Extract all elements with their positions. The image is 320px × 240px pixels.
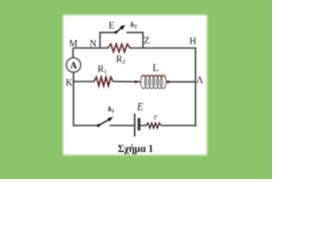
wire: bypass left vertical at N (100, 33, 116, 49)
current arrow before L (135, 80, 139, 83)
switch δ1 arrowhead (108, 117, 114, 122)
switch δ1 lever (99, 119, 110, 125)
battery E short plate (138, 118, 141, 131)
resistor r (146, 123, 161, 128)
resistor R1 (94, 77, 113, 86)
node K junction dot (73, 80, 75, 82)
switch δ2 pivot dot (115, 31, 118, 34)
svg-text:δ2: δ2 (130, 20, 137, 30)
svg-text:E: E (136, 102, 143, 113)
wire: bottom segment switch δ1 to battery (110, 125, 135, 127)
svg-text:A: A (70, 62, 77, 72)
wire: left vertical ammeter to bottom corner (73, 72, 75, 126)
battery E long plate (134, 114, 136, 137)
svg-text:K: K (66, 79, 73, 89)
wire: K row segment K to R1 (74, 81, 95, 83)
inductor L top arcs (141, 75, 165, 77)
wire: K row segment L to Λ (166, 81, 196, 83)
svg-text:N: N (90, 40, 97, 50)
svg-text:R2: R2 (116, 55, 125, 66)
svg-text:E: E (109, 22, 115, 32)
svg-text:Λ: Λ (196, 76, 203, 86)
wire: top segment R2 to H (130, 47, 197, 49)
wire: bottom segment r to right corner (161, 125, 196, 127)
switch δ2 arrowhead (120, 25, 126, 30)
switch δ1 pivot dot (97, 124, 100, 127)
wire: right vertical H to bottom (195, 48, 197, 126)
current arrow after L (167, 80, 171, 83)
svg-text:Z: Z (144, 37, 150, 47)
wire: bypass right horizontal and vertical to Z (127, 33, 144, 49)
inductor L (141, 75, 166, 88)
wire: K row segment R1 to L (113, 81, 142, 83)
svg-text:L: L (152, 63, 158, 74)
svg-text:R1: R1 (98, 65, 107, 76)
wire: bottom segment left corner to switch δ1 (74, 125, 99, 127)
svg-text:δ1: δ1 (108, 104, 115, 114)
wire: bottom segment battery to r (141, 125, 147, 127)
wire: top segment M to R2 (73, 47, 109, 49)
svg-text:H: H (189, 37, 196, 47)
ammeter A (66, 58, 80, 72)
wire: left vertical M to ammeter (72, 48, 74, 58)
resistor R2 (108, 44, 130, 52)
svg-text:r: r (154, 112, 158, 122)
svg-text:Σχήμα 1: Σχήμα 1 (118, 143, 154, 155)
switch δ2 lever (116, 28, 121, 32)
